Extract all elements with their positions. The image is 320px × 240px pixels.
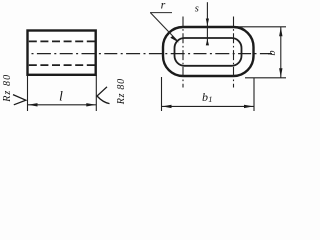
Rz 80 tick left — [13, 95, 26, 105]
b1 extension line right — [253, 78, 255, 111]
b extension line bottom — [245, 77, 286, 79]
extension line left (l dimension) — [27, 75, 29, 111]
vertical centerline left arc — [182, 17, 184, 88]
left view rectangle outline — [28, 31, 96, 75]
extension line right (l dimension) — [95, 75, 97, 111]
s dimension line — [206, 2, 208, 44]
inner obround (hole) — [175, 38, 242, 66]
dimension line l with arrows — [28, 104, 97, 106]
Rz 80 tick right — [97, 87, 110, 104]
r leader diagonal with arrow — [151, 13, 178, 41]
vertical centerline right arc — [233, 17, 235, 88]
hidden line bottom (left view) — [29, 64, 95, 66]
r leader shelf — [150, 12, 172, 14]
svg-text:Rz 80: Rz 80 — [116, 78, 127, 105]
svg-text:b: b — [267, 50, 278, 55]
svg-text:Rz 80: Rz 80 — [2, 74, 13, 103]
b1 dimension line with arrows — [162, 105, 255, 107]
svg-text:l: l — [59, 90, 63, 105]
svg-text:r: r — [161, 0, 166, 11]
b1 extension line left — [161, 77, 163, 111]
outer obround (right view) — [163, 27, 254, 76]
b dimension line with arrows — [280, 27, 282, 78]
hidden line top (left view) — [29, 40, 95, 42]
b extension line top — [236, 26, 286, 28]
horizontal centerline (axis through both views) — [32, 53, 273, 55]
svg-text:s: s — [195, 4, 199, 15]
